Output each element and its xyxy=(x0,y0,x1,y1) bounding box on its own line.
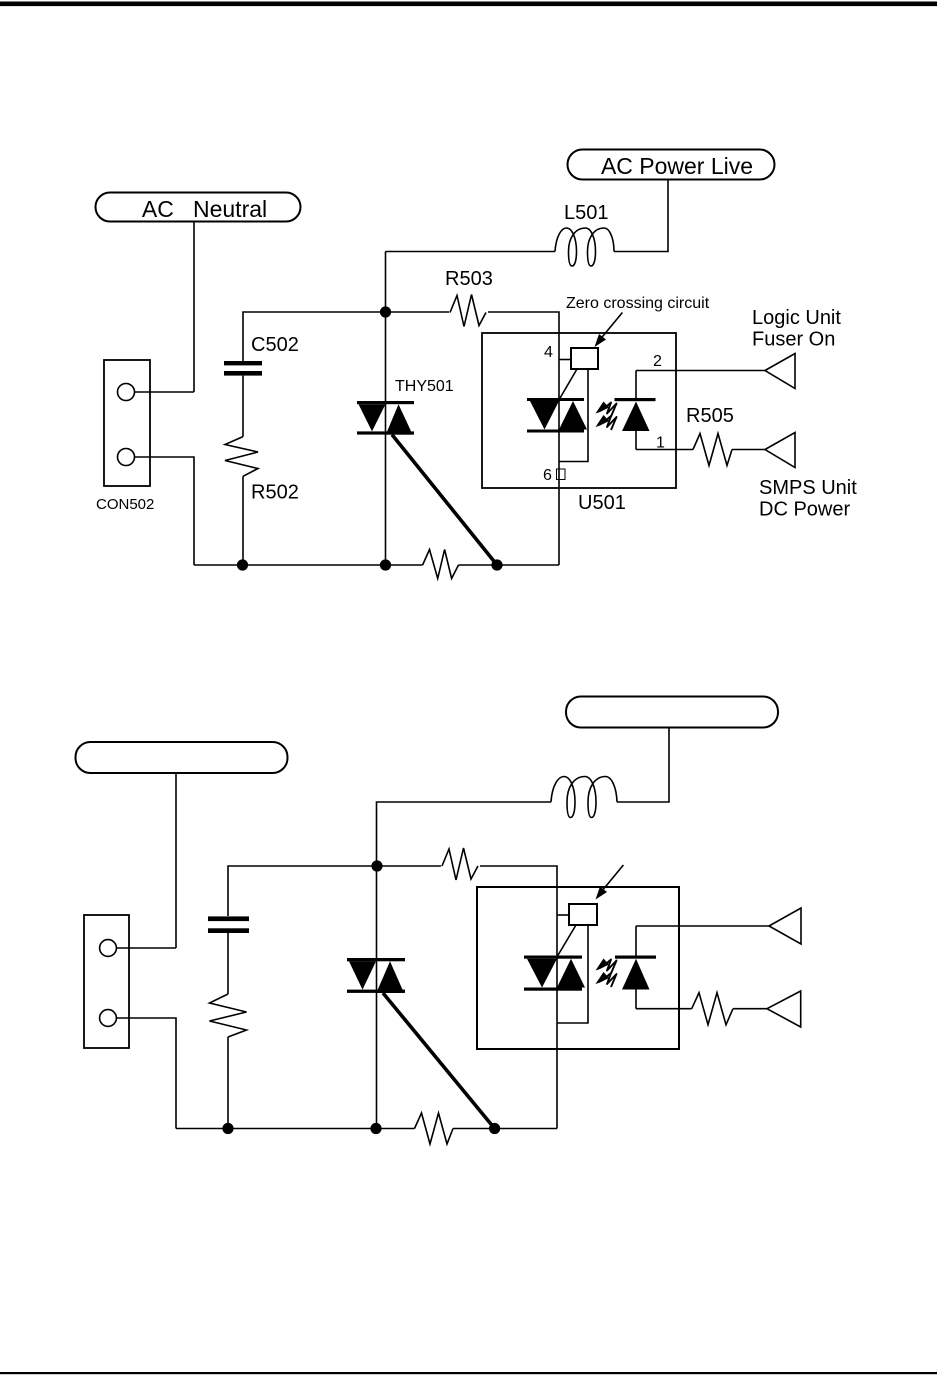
opto triac (blank) xyxy=(524,956,585,991)
wire pin1 xyxy=(636,449,693,451)
wire CON502 pin1 xyxy=(135,391,195,393)
wire horizontal to resistor xyxy=(228,866,441,916)
IC U501 box xyxy=(482,333,676,488)
wire connector pin2 to bottom rail xyxy=(116,1018,176,1129)
svg-text:R505: R505 xyxy=(686,405,734,427)
wire pin1 xyxy=(636,1008,692,1010)
wire zero box to opto gate xyxy=(558,925,577,956)
arrow to zero crossing box xyxy=(596,865,624,900)
svg-text:L501: L501 xyxy=(564,202,609,224)
svg-text:R502: R502 xyxy=(251,482,299,504)
capacitor (blank C502) xyxy=(208,916,249,994)
svg-text:6: 6 xyxy=(543,467,552,484)
resistor R505 xyxy=(686,405,734,466)
wire pin2 to Logic triangle xyxy=(636,370,765,372)
svg-text:U501: U501 xyxy=(578,492,626,514)
svg-text:1: 1 xyxy=(656,435,665,452)
wire inductor to corner xyxy=(377,802,552,866)
output triangle SMPS xyxy=(765,433,795,468)
wire L501 to main vertical xyxy=(386,251,556,253)
opto triac inside U501 xyxy=(527,398,587,433)
triac gate wire xyxy=(383,993,495,1129)
svg-text:AC Power Live: AC Power Live xyxy=(601,153,753,179)
photon arrows xyxy=(596,959,617,988)
output triangle (smps) xyxy=(767,991,801,1027)
junction node gate xyxy=(491,559,502,570)
resistor R503 xyxy=(445,268,493,327)
bottom rail right xyxy=(459,564,560,566)
junction node at THY/R503 xyxy=(380,306,391,317)
node flag (blank live) xyxy=(566,697,778,728)
svg-text:R503: R503 xyxy=(445,268,493,290)
LED in U501 xyxy=(615,371,656,450)
resistor gate (bottom rail zigzag) xyxy=(423,550,459,579)
label SMPS Unit / DC Power xyxy=(759,477,857,521)
svg-text:SMPS Unit: SMPS Unit xyxy=(759,477,857,499)
svg-text:Zero crossing circuit: Zero crossing circuit xyxy=(566,295,710,312)
junction node THY xyxy=(380,559,391,570)
wire opto sub-loop xyxy=(560,369,589,462)
svg-text:Logic Unit: Logic Unit xyxy=(752,307,841,329)
bottom rail left xyxy=(194,564,423,566)
connector (blank CON502) xyxy=(84,915,129,1048)
wire R505 to SMPS triangle xyxy=(732,449,765,451)
resistor gate (bottom rail zigzag) xyxy=(415,1113,454,1144)
arrow to zero crossing box xyxy=(595,313,623,348)
svg-text:2: 2 xyxy=(653,353,662,370)
resistor (blank R502) xyxy=(210,994,247,1129)
IC box (blank U501) xyxy=(477,887,679,1049)
svg-text:C502: C502 xyxy=(251,334,299,356)
junction node gate xyxy=(489,1123,500,1134)
wire AC Power Live to L501 xyxy=(614,180,668,252)
pin 6 xyxy=(543,467,565,484)
wire CON502 pin2 to bottom rail xyxy=(135,457,195,565)
page top rule xyxy=(0,2,937,7)
connector CON502 xyxy=(96,360,154,513)
wire resistor to triangle xyxy=(733,1008,767,1010)
node flag (blank neutral) xyxy=(76,742,288,773)
inductor (blank) xyxy=(551,777,617,818)
output triangle (logic) xyxy=(769,908,801,944)
wire flag to connector xyxy=(175,773,177,948)
wire AC Neutral to CON502 pin1 xyxy=(193,222,195,393)
inductor L501 xyxy=(555,202,614,266)
wire main vertical (THY501 branch) xyxy=(385,252,387,566)
svg-text:CON502: CON502 xyxy=(96,496,154,513)
zero crossing box (blank) xyxy=(557,904,597,925)
capacitor C502 xyxy=(224,334,299,437)
junction node C502/R502 xyxy=(237,559,248,570)
svg-text:AC Neutral: AC Neutral xyxy=(142,196,267,222)
svg-text:DC Power: DC Power xyxy=(759,499,850,521)
wire main vertical (lower THY branch) xyxy=(376,866,378,1129)
junction node cap branch xyxy=(222,1123,233,1134)
node AC Power Live flag xyxy=(568,150,775,180)
bottom rail right xyxy=(453,1128,557,1130)
resistor (R505 equiv) xyxy=(692,993,733,1025)
wire connector pin1 xyxy=(116,947,176,949)
svg-text:Fuser On: Fuser On xyxy=(752,329,835,351)
label Logic Unit / Fuser On xyxy=(752,307,841,351)
triac (blank THY) xyxy=(347,958,405,993)
resistor (R503 equiv) xyxy=(442,848,478,880)
page bottom rule xyxy=(0,1372,937,1374)
output triangle Logic Unit xyxy=(765,354,795,389)
svg-text:4: 4 xyxy=(544,344,553,361)
wire resistor to corner down xyxy=(480,866,557,1129)
node AC Neutral flag xyxy=(96,193,301,223)
zero crossing box xyxy=(559,348,598,369)
photon arrows xyxy=(596,402,617,431)
junction node xyxy=(371,860,382,871)
bottom rail left xyxy=(176,1128,415,1130)
resistor R502 xyxy=(225,437,299,565)
junction node triac xyxy=(370,1123,381,1134)
wire zero box to opto gate xyxy=(560,369,578,399)
svg-text:THY501: THY501 xyxy=(395,378,454,395)
LED (blank) xyxy=(615,926,656,1009)
THY501 gate wire xyxy=(392,435,497,565)
wire opto sub-loop xyxy=(558,925,589,1023)
wire flag to inductor xyxy=(617,728,669,803)
triac THY501 xyxy=(357,378,454,435)
wire pin2 to triangle xyxy=(636,925,769,927)
wire top horizontal left segment xyxy=(243,312,449,361)
wire R503 to corner xyxy=(488,312,559,565)
